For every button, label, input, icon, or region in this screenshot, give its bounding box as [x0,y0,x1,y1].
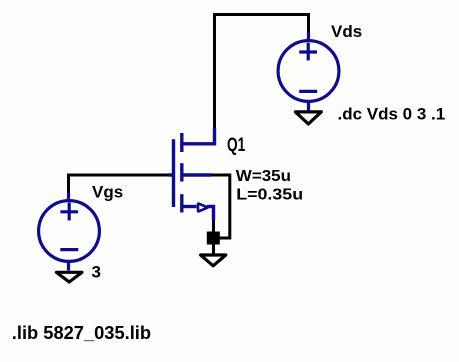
channel segment bottom [180,194,183,212]
channel segment middle [180,163,183,181]
svg-text:Q1: Q1 [227,134,245,156]
channel segment top [180,133,183,152]
top lead [67,193,70,202]
source lead with bend [182,205,197,208]
svg-text:L=0.35u: L=0.35u [236,186,303,204]
bulk lead [182,173,211,176]
wire bulk return: from Q1 bulk pin right, down, to junction [210,175,230,238]
svg-text:.dc Vds 0 3 .1: .dc Vds 0 3 .1 [338,105,446,124]
ground below transistor source [201,255,226,266]
gate stub [169,173,173,176]
ground below Vds [295,112,321,124]
svg-text:3: 3 [92,263,101,282]
voltage source Vds [278,33,339,112]
bottom lead [307,102,310,112]
svg-text:Vds: Vds [331,22,362,41]
minus sign [60,248,78,251]
wire source down: from Q1 source pin to ground [212,220,215,254]
source arrow [198,203,208,211]
svg-text:.lib 5827_035.lib: .lib 5827_035.lib [12,322,151,343]
plus sign [60,210,78,213]
svg-text:W=35u: W=35u [236,167,291,184]
top lead [307,33,310,42]
minus sign [299,90,317,93]
gate bar [172,139,175,207]
circle [278,41,339,102]
svg-text:Vgs: Vgs [92,183,123,202]
circle [39,201,100,262]
junction node square [207,232,220,245]
drain lead [182,128,215,144]
wire gate: from Vgs top to Q1 gate [69,175,170,193]
bottom lead [67,261,70,271]
plus sign [299,50,317,53]
voltage source Vgs [39,193,100,271]
wire drain top: from Q1 drain up and over to Vds plus terminal [215,15,309,129]
transistor Q1 (NMOS, blue symbol) [169,128,215,221]
ground below Vgs [56,272,82,282]
